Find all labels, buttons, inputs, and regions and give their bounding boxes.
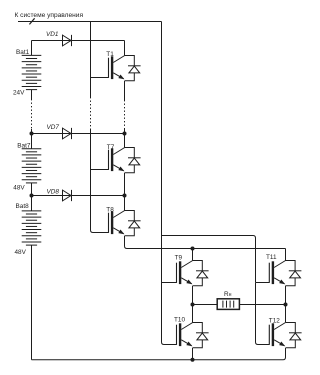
transistor T11 (IGBT) xyxy=(269,261,285,285)
wire: gate lead T9 xyxy=(162,282,177,284)
wire: T10 emitter xyxy=(192,348,194,360)
transistor T9 (IGBT) xyxy=(177,261,193,285)
diode VD1 xyxy=(63,35,72,46)
wire: T7 emitter xyxy=(124,173,126,196)
svg-text:48V: 48V xyxy=(13,184,25,191)
wire: T12 emitter and bottom rail xyxy=(32,348,286,360)
bus slash mark xyxy=(29,18,34,24)
svg-text:T9: T9 xyxy=(175,255,183,262)
svg-text:Rн: Rн xyxy=(224,291,232,298)
svg-text:VD8: VD8 xyxy=(47,189,60,196)
wire: gate bus A upper xyxy=(90,22,92,98)
svg-text:48V: 48V xyxy=(15,249,27,256)
svg-text:24V: 24V xyxy=(13,89,25,96)
wire: dashed continuation emitter chain xyxy=(124,100,126,129)
wire: dashed continuation of battery chain xyxy=(31,99,33,129)
svg-text:T11: T11 xyxy=(266,254,277,261)
transistor T12 (IGBT) xyxy=(269,323,285,347)
wire: gate bus B vertical xyxy=(161,22,163,235)
svg-text:VD7: VD7 xyxy=(47,124,60,131)
diode VD8 xyxy=(63,190,72,201)
wire: VD7 row xyxy=(32,133,125,135)
wire: T11 collector xyxy=(285,249,287,261)
wire: Bat8 positive terminal xyxy=(31,196,33,211)
freewheeling diode of T11 xyxy=(286,261,302,286)
wire: Bat7 positive terminal xyxy=(31,134,33,149)
svg-text:T7: T7 xyxy=(107,144,115,151)
svg-text:VD1: VD1 xyxy=(46,31,59,38)
wire: Bat1 negative terminal xyxy=(31,90,33,99)
junction: T1 emitter / T7 collector / VD7 cathode xyxy=(123,132,127,136)
wire: midpoint to Rn left xyxy=(193,304,218,306)
freewheeling diode of T9 xyxy=(193,261,209,286)
wire: control bus (top) xyxy=(18,21,162,23)
junction: T10 emitter on bottom rail xyxy=(191,358,195,362)
wire: T10 collector xyxy=(192,305,194,323)
transistor T7 (IGBT) xyxy=(109,148,125,172)
junction: T9 collector on rail xyxy=(191,247,195,251)
wire: Bat1 positive terminal xyxy=(31,41,33,56)
wire: gate bus A dashed continuation xyxy=(90,97,92,129)
wire: gate lead T1 xyxy=(91,77,109,79)
junction: Bat7-/Bat8+ node xyxy=(30,194,34,198)
resistor Rн (load) xyxy=(217,299,239,310)
wire: T8 collector xyxy=(124,196,126,211)
junction: Bat1-/Bat7+ node xyxy=(30,132,34,136)
wire: T9 collector xyxy=(192,249,194,261)
svg-text:Bat7: Bat7 xyxy=(17,142,31,149)
transistor T8 (IGBT) xyxy=(109,211,125,235)
wire: gate lead T7 xyxy=(91,169,109,171)
transistor T1 (IGBT) xyxy=(109,56,125,80)
wire: gate lead T11 xyxy=(256,282,270,284)
wire: Bat1+ to T1 collector row xyxy=(32,40,125,42)
junction: right midpoint node xyxy=(284,303,288,307)
wire: VD8 row xyxy=(32,195,125,197)
freewheeling diode of T7 xyxy=(125,148,141,173)
wire: T12 collector xyxy=(285,305,287,323)
wire: T8 emitter to H-bridge top rail xyxy=(125,236,286,249)
wire: gate bus A lower with bend to T8 gate xyxy=(91,129,109,233)
wire: gate bus B to T10 gate xyxy=(162,235,177,345)
diode VD7 xyxy=(63,128,72,139)
freewheeling diode of T1 xyxy=(125,56,141,81)
wire: T1 emitter down xyxy=(124,81,126,100)
svg-text:Bat8: Bat8 xyxy=(16,203,30,210)
wire: Rn right to midpoint xyxy=(239,304,285,306)
battery Bat1 xyxy=(22,55,42,89)
freewheeling diode of T12 xyxy=(286,323,302,348)
svg-text:T8: T8 xyxy=(106,207,114,214)
wire: T11 emitter to midpoint xyxy=(285,286,287,305)
svg-text:К системе управления: К системе управления xyxy=(15,12,84,19)
wire xyxy=(31,129,33,134)
svg-text:T10: T10 xyxy=(174,317,185,324)
transistor T10 (IGBT) xyxy=(177,323,193,347)
battery Bat7 xyxy=(22,149,42,183)
wire: T7 collector xyxy=(124,134,126,148)
wire: T9 emitter to midpoint xyxy=(192,286,194,305)
wire: Bat8 negative down to bottom rail xyxy=(31,245,33,360)
wire: Bat7 negative terminal xyxy=(31,183,33,196)
wire: T1 collector xyxy=(124,41,126,56)
battery Bat8 xyxy=(22,211,42,245)
junction: T7 emitter / T8 collector / VD8 cathode xyxy=(123,194,127,198)
wire: gate bus C to T12 gate xyxy=(256,283,270,345)
wire: gate bus branch to C xyxy=(162,236,256,283)
freewheeling diode of T10 xyxy=(193,323,209,348)
svg-text:T1: T1 xyxy=(106,51,114,58)
wire xyxy=(124,129,126,134)
junction: left midpoint node xyxy=(191,303,195,307)
svg-text:Bat1: Bat1 xyxy=(16,49,30,56)
svg-text:T12: T12 xyxy=(269,318,280,325)
freewheeling diode of T8 xyxy=(125,211,141,236)
